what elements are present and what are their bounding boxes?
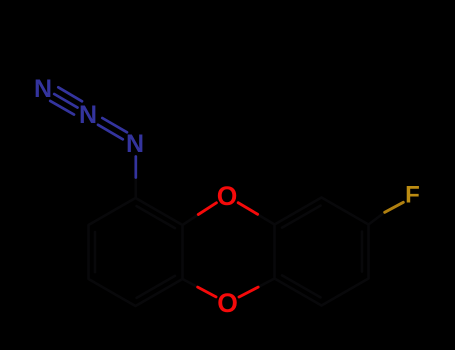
- svg-text:N: N: [79, 101, 97, 129]
- svg-text:N: N: [126, 130, 144, 158]
- svg-text:F: F: [405, 182, 420, 209]
- svg-text:O: O: [217, 288, 238, 318]
- svg-text:N: N: [34, 75, 52, 103]
- svg-text:O: O: [217, 181, 238, 211]
